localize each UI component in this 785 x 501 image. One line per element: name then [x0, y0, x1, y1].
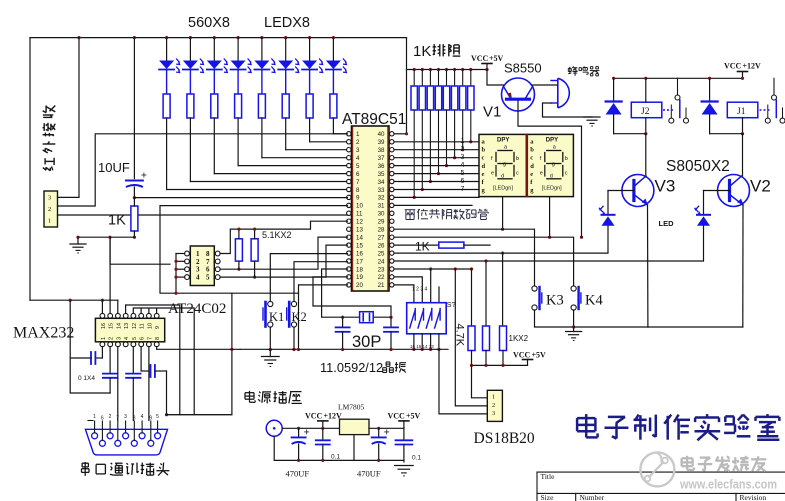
wire pin20 gnd [299, 285, 348, 350]
wire pin18 crystal [322, 269, 348, 317]
wire LED column 5 [261, 118, 263, 158]
svg-text:J1: J1 [737, 107, 746, 117]
svg-text:32: 32 [378, 195, 385, 202]
node pullup a [470, 364, 473, 367]
node dip gnd 0 [412, 348, 415, 351]
node LED bus junction 2 [189, 36, 192, 39]
svg-text:29: 29 [378, 219, 385, 226]
node serial j1 [165, 413, 168, 416]
wire max loop left [70, 300, 110, 393]
svg-text:1K: 1K [108, 213, 126, 229]
svg-text:VCC: VCC [513, 351, 531, 360]
svg-text:14: 14 [356, 235, 363, 242]
resistor 560 #4 [235, 94, 242, 118]
svg-text:20: 20 [356, 282, 363, 289]
node rnet 8 row [469, 140, 472, 143]
resistor 560 #2 [187, 94, 194, 118]
transistor V3 S8050 [622, 175, 654, 207]
svg-text:19: 19 [356, 274, 363, 281]
svg-text:d: d [530, 163, 534, 170]
svg-text:11.0592/12: 11.0592/12 [320, 360, 383, 375]
svg-text:J2: J2 [641, 107, 650, 117]
switch K4 [571, 286, 603, 310]
wire pin31 stub [394, 204, 472, 206]
resistor 4.7K [468, 326, 475, 351]
svg-text:c: c [565, 171, 568, 177]
wire 4.7K drop [471, 269, 473, 326]
node eeprom strap 269 [174, 268, 177, 271]
svg-text:VCC: VCC [388, 412, 406, 421]
power VCC +12V (relays) [724, 62, 761, 79]
svg-text:2: 2 [492, 402, 495, 409]
capacitor 0.1 input [316, 428, 330, 460]
resistor 560 #7 [306, 94, 313, 118]
svg-text:c: c [482, 155, 485, 162]
node rnet bus 6 [453, 68, 456, 71]
label 5.1KX2 [262, 230, 292, 240]
node gnd row branch [108, 236, 111, 239]
wire J2 diode join [614, 133, 646, 135]
node c30a gnd [341, 348, 344, 351]
wire pin22 row [394, 277, 422, 303]
svg-text:1: 1 [356, 131, 360, 138]
connector DS18B20 [487, 390, 502, 421]
wire max pin13 up [126, 305, 180, 415]
resistor 1K b [500, 326, 507, 351]
svg-text:c: c [530, 155, 533, 162]
svg-text:LM7805: LM7805 [338, 403, 365, 412]
svg-text:26: 26 [378, 242, 385, 249]
svg-text:4: 4 [196, 274, 200, 282]
switch K2 [287, 301, 307, 327]
svg-text:S8050X2: S8050X2 [666, 158, 730, 175]
svg-text:22: 22 [378, 274, 385, 281]
transistor V2 S8050 [718, 175, 750, 207]
node ds data [454, 267, 457, 270]
wire eeprom pin6 row [220, 237, 348, 269]
svg-text:28: 28 [378, 227, 385, 234]
wire max pin8 right [157, 347, 240, 350]
svg-text:18: 18 [356, 266, 363, 273]
svg-text:21: 21 [378, 282, 385, 289]
svg-text:d: d [482, 163, 486, 170]
wire DS18B20 pin3 gnd [439, 349, 487, 414]
node LED bus junction 3 [213, 36, 216, 39]
LED D3 [207, 38, 228, 94]
node rnet bus 5 [445, 68, 448, 71]
connector IR 3-pin [44, 191, 58, 227]
svg-text:10UF: 10UF [98, 160, 130, 175]
wire dip col4 stub [438, 287, 440, 303]
wire main ground bus [240, 348, 448, 350]
wire K1 bottom [269, 327, 271, 349]
wire top LED bus [30, 37, 407, 39]
wire max pin12 up [133, 308, 194, 415]
op-amp U2 MAX232 [95, 313, 164, 346]
svg-text:+12V: +12V [743, 62, 762, 71]
node rnet 3 row [429, 180, 432, 183]
svg-text:11: 11 [140, 323, 146, 329]
wire J1 to V2 collector [742, 134, 744, 176]
label V3 [655, 177, 676, 196]
svg-text:3: 3 [124, 414, 127, 420]
node max t1 [69, 299, 72, 302]
svg-text:6: 6 [206, 266, 210, 274]
svg-text:6: 6 [461, 178, 465, 185]
connector power jack [266, 420, 282, 436]
svg-text:K4: K4 [585, 293, 603, 309]
wire pin37 to display [394, 157, 479, 159]
node eeprom strap 293 [174, 292, 177, 295]
svg-text:8: 8 [133, 416, 136, 422]
wire 1K gnd down to eeprom [110, 237, 170, 264]
svg-text:12: 12 [356, 219, 363, 226]
wire relay top bus [614, 77, 743, 79]
node 5.1K top b [253, 228, 256, 231]
wire rnet 2 down [421, 110, 423, 190]
node rnet bus 3 [429, 68, 432, 71]
svg-text:38: 38 [378, 147, 385, 154]
resistor 1K network #4 [435, 70, 441, 111]
wire V1 collector to buzzer [533, 84, 558, 86]
node J1 diode top [708, 77, 711, 80]
svg-text:V2: V2 [750, 177, 771, 196]
LED D1 [159, 38, 180, 94]
capacitor 10UF [126, 38, 146, 198]
label V1 [483, 104, 501, 121]
node r51a bot [237, 268, 240, 271]
LED D8 [326, 38, 347, 94]
node rnet 7 row [461, 148, 464, 151]
svg-text:3: 3 [356, 147, 360, 154]
diode D J2 [606, 78, 622, 133]
svg-text:Revision: Revision [740, 493, 767, 501]
svg-text:5: 5 [461, 170, 465, 177]
resistor 5.1K a [235, 229, 242, 269]
wire LED 5 to pin 4 [262, 157, 348, 159]
label 0.1X4 [78, 375, 95, 382]
node display1 common [501, 228, 504, 231]
node LED bus junction 1 [165, 36, 168, 39]
node J1 cathode [741, 132, 744, 135]
svg-text:+5V: +5V [532, 351, 547, 360]
wire pin23 row [394, 268, 472, 270]
node display2 common [548, 236, 551, 239]
label LEDX8 [264, 15, 310, 31]
capacitor 470UF input [292, 428, 309, 460]
node K4 gnd [572, 325, 575, 328]
node LED bus junction 5 [260, 36, 263, 39]
wire max pin15 up [109, 237, 111, 313]
svg-text:K3: K3 [546, 293, 564, 309]
svg-text:LEDX8: LEDX8 [264, 15, 310, 31]
wire V1 emitter to VCC [487, 70, 504, 86]
wire eeprom-serial drop [167, 293, 232, 415]
wire VCC drop to resistor bus [406, 38, 408, 134]
wire eeprom pin8 bus [220, 221, 348, 253]
LED V3 indicator [599, 191, 615, 254]
ground main [262, 350, 280, 367]
svg-text:9: 9 [356, 195, 360, 202]
label V2 [750, 177, 771, 196]
svg-text:4: 4 [461, 162, 465, 169]
wire max pin10 up [148, 309, 150, 313]
svg-text:5.1KX2: 5.1KX2 [262, 230, 292, 240]
svg-text:6: 6 [101, 416, 104, 422]
wire pin33 to display [394, 189, 479, 191]
svg-text:3: 3 [492, 410, 495, 417]
svg-text:3: 3 [461, 154, 465, 161]
node eeprom strap 277 [174, 276, 177, 279]
wire LED column 2 [189, 118, 191, 182]
svg-text:30: 30 [378, 211, 385, 218]
wire r1kx2a drop [502, 253, 504, 326]
ground power [395, 466, 413, 476]
node J2 coil top [644, 77, 647, 80]
buzzer 蜂鸣器 [551, 78, 569, 108]
svg-text:Size: Size [541, 493, 555, 501]
node LED bus junction 7 [308, 36, 311, 39]
node 1K gnd [133, 236, 136, 239]
node pullup b [484, 364, 487, 367]
svg-text:1: 1 [196, 250, 200, 258]
svg-text:0 1X4: 0 1X4 [78, 375, 95, 382]
wire pin34 to display [394, 181, 479, 183]
wire pin21 row [394, 285, 414, 303]
label MAX232 [13, 325, 74, 342]
node cap470b bot [377, 459, 380, 462]
wire rnet 3 down [429, 110, 431, 182]
svg-text:4: 4 [356, 155, 360, 162]
svg-text:15: 15 [109, 323, 115, 329]
svg-text:DPY: DPY [546, 138, 558, 144]
node VCC5 bus [485, 68, 488, 71]
svg-text:[LEDgn]: [LEDgn] [542, 186, 562, 192]
ground K3K4 [566, 327, 582, 341]
wire pin27 row K4 [394, 237, 574, 288]
svg-text:b: b [482, 147, 486, 154]
svg-text:V1: V1 [483, 104, 501, 121]
watermark 电子发烧友 [682, 456, 767, 472]
svg-text:6: 6 [140, 337, 146, 340]
label 蜂鸣器 [568, 66, 599, 76]
wire max pin16 up [101, 300, 103, 313]
wire RST row [134, 197, 347, 199]
svg-text:DPY: DPY [497, 138, 509, 144]
node rnet 6 row [453, 156, 456, 159]
node cap470b top [377, 427, 380, 430]
svg-text:15: 15 [356, 242, 363, 249]
svg-text:1: 1 [101, 337, 107, 340]
switch S? DIP [407, 287, 456, 350]
svg-text:S8550: S8550 [504, 61, 542, 76]
svg-text:23: 23 [378, 266, 385, 273]
wire K4 bottom [573, 310, 575, 327]
relay J1 [727, 102, 758, 134]
svg-text:33: 33 [378, 187, 385, 194]
node vcc12 tap [321, 427, 324, 430]
svg-text:DS18B20: DS18B20 [474, 430, 535, 447]
crystal Y1 [343, 312, 391, 323]
label 10UF [98, 160, 130, 175]
label 两位共阴数码管 [405, 209, 489, 220]
label 470UF output [357, 469, 381, 479]
svg-text:7: 7 [147, 337, 153, 340]
wire K2 bottom [293, 327, 295, 349]
capacitor C 0.1 #3 [126, 347, 140, 421]
resistor 1K reset [131, 198, 138, 238]
wire V2 emitter [742, 205, 744, 327]
svg-text:31: 31 [378, 203, 385, 210]
svg-text:1 2 3 4: 1 2 3 4 [412, 287, 428, 293]
wire pin32 to display [394, 196, 479, 198]
label 1K排阻 [413, 43, 460, 60]
wire rnet 1 down [413, 110, 415, 197]
capacitor 30P left [336, 317, 350, 349]
wire pin19 crystal [313, 277, 391, 317]
wire V3 collector [645, 175, 647, 178]
node V1 base join [580, 236, 583, 239]
switch K3 [532, 286, 564, 310]
wire pin26 row right [464, 244, 490, 246]
node 5.1K top a [237, 228, 240, 231]
node LED bus junction 4 [237, 36, 240, 39]
wire LED 3 to pin 6 [214, 173, 347, 175]
svg-text:10: 10 [147, 323, 153, 329]
node r51b bot [253, 276, 256, 279]
wire jack bottom [274, 436, 404, 460]
svg-text:470UF: 470UF [357, 469, 381, 479]
resistor 1K network #3 [427, 70, 433, 111]
svg-text:S?: S? [447, 302, 456, 309]
wire V3 emitter [647, 205, 649, 327]
svg-text:e: e [491, 171, 494, 177]
svg-text:AT24C02: AT24C02 [168, 301, 226, 317]
label 串口通讯插头 [82, 462, 170, 476]
svg-text:4.7K: 4.7K [454, 324, 466, 347]
svg-text:1: 1 [461, 138, 465, 145]
svg-text:10: 10 [356, 203, 363, 210]
connector DB9 serial [85, 429, 167, 455]
svg-text:35: 35 [378, 171, 385, 178]
label 1KX2 [509, 334, 529, 343]
svg-text:470UF: 470UF [286, 469, 310, 479]
svg-text:2: 2 [109, 337, 115, 340]
label 4.7K [454, 324, 466, 347]
watermark www.elecfans.com [679, 477, 777, 492]
wire LED 1 to pin 8 [167, 189, 348, 191]
svg-text:+5V: +5V [489, 54, 504, 63]
wire LED 2 to pin 7 [190, 181, 347, 183]
wire K3 bottom [535, 310, 574, 327]
resistor 1K network #5 [443, 70, 449, 111]
watermark logo [640, 452, 674, 486]
wire pin40 row [394, 133, 407, 135]
node cap470a top [297, 427, 300, 430]
resistor 1K network #2 [419, 70, 425, 111]
wire IR pin1 to pin11 [58, 214, 348, 216]
svg-text:8: 8 [155, 337, 161, 340]
wire pin24 row [394, 260, 703, 262]
capacitor 0.1 output [396, 428, 413, 462]
svg-text:b: b [565, 156, 568, 162]
resistor 1K network #1 [411, 70, 417, 111]
svg-text:7: 7 [116, 416, 119, 422]
wire LED 4 to pin 5 [238, 165, 347, 167]
svg-text:Number: Number [580, 493, 605, 501]
svg-text:5: 5 [156, 414, 159, 420]
wire rnet 4 down [438, 110, 440, 174]
svg-text:3: 3 [48, 195, 51, 202]
resistor 560 #5 [258, 94, 265, 118]
wire J1 diode join [710, 133, 743, 135]
node rnet bus 2 [421, 68, 424, 71]
svg-text:b: b [530, 147, 534, 154]
capacitor 30P right [384, 317, 398, 349]
wire display1 common down [502, 197, 504, 230]
svg-text:V3: V3 [655, 177, 676, 196]
wire r1kx2b drop [485, 261, 487, 326]
ground reset [70, 237, 86, 253]
label 470UF input [286, 469, 310, 479]
svg-text:e: e [540, 171, 543, 177]
svg-text:K2: K2 [292, 310, 307, 324]
node 4.7K top [470, 267, 473, 270]
resistor 560 #1 [163, 94, 170, 118]
LED D6 [278, 38, 299, 94]
power VCC +5V (pullups) [513, 351, 546, 366]
resistor 1K network #7 [460, 70, 466, 111]
svg-text:c: c [516, 171, 519, 177]
label 电子制作实验室 (title) [577, 414, 779, 440]
node serial j2 [230, 348, 233, 351]
svg-text:1: 1 [93, 414, 96, 420]
wire V3 base [608, 190, 634, 192]
node xtal right [389, 316, 392, 319]
power VCC +5V (power) [388, 412, 421, 429]
node pullup c [501, 364, 504, 367]
node c30b gnd [389, 348, 392, 351]
LED D5 [254, 38, 275, 94]
node dip col3 [429, 267, 432, 270]
node rnet 2 row [421, 188, 424, 191]
display DPY block [479, 134, 573, 196]
wire V2 base [704, 190, 730, 192]
op-amp U1 AT89C51 body [347, 126, 394, 291]
svg-text:30P: 30P [352, 333, 381, 351]
wire gnd bus to V3 emitter [574, 326, 648, 328]
wire AT24C02 left strap [176, 254, 299, 294]
ground buzzer [584, 117, 600, 126]
label 560X8 [188, 15, 230, 31]
svg-text:g: g [503, 162, 506, 168]
label S8550 [504, 61, 542, 76]
wire LED column 1 [166, 118, 168, 190]
label segment digits 1-7 [461, 138, 465, 193]
svg-text:3: 3 [196, 266, 200, 274]
wire K1 top [270, 254, 347, 302]
node rnet bus 4 [437, 68, 440, 71]
svg-text:+5V: +5V [406, 412, 421, 421]
wire rnet 8 down [470, 110, 472, 142]
svg-text:13: 13 [356, 227, 363, 234]
svg-text:560X8: 560X8 [188, 15, 230, 31]
svg-text:0.1: 0.1 [412, 455, 421, 462]
power VCC +12V (power) [305, 412, 342, 429]
node xtal left [341, 316, 344, 319]
node rnet bus 8 [469, 68, 472, 71]
svg-text:5: 5 [206, 274, 210, 282]
